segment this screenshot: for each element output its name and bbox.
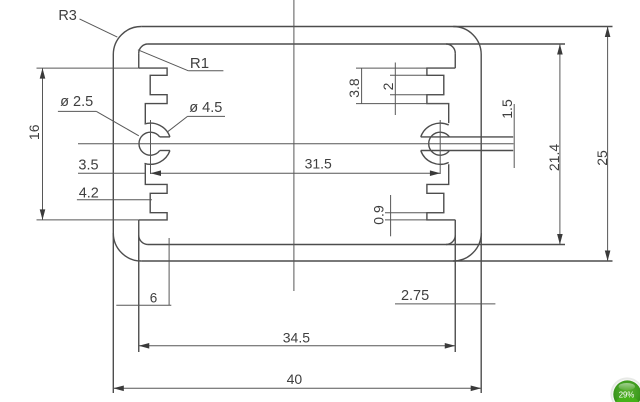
svg-text:34.5: 34.5 [283, 329, 310, 345]
svg-text:3.8: 3.8 [346, 78, 362, 98]
svg-text:16: 16 [26, 124, 42, 140]
svg-text:R3: R3 [58, 8, 77, 24]
svg-text:1.5: 1.5 [499, 99, 515, 119]
svg-text:29%: 29% [619, 390, 635, 399]
svg-text:6: 6 [150, 290, 158, 305]
svg-text:2: 2 [380, 82, 396, 90]
svg-text:31.5: 31.5 [305, 156, 332, 172]
svg-text:40: 40 [287, 371, 303, 387]
svg-text:ø 4.5: ø 4.5 [189, 100, 222, 116]
svg-text:2.75: 2.75 [401, 288, 429, 304]
svg-text:4.2: 4.2 [79, 186, 99, 202]
svg-text:ø 2.5: ø 2.5 [60, 94, 93, 110]
svg-text:0.9: 0.9 [371, 205, 387, 225]
svg-text:R1: R1 [190, 55, 209, 72]
svg-text:3.5: 3.5 [78, 158, 98, 174]
svg-text:21.4: 21.4 [546, 144, 562, 171]
svg-text:25: 25 [594, 150, 610, 166]
